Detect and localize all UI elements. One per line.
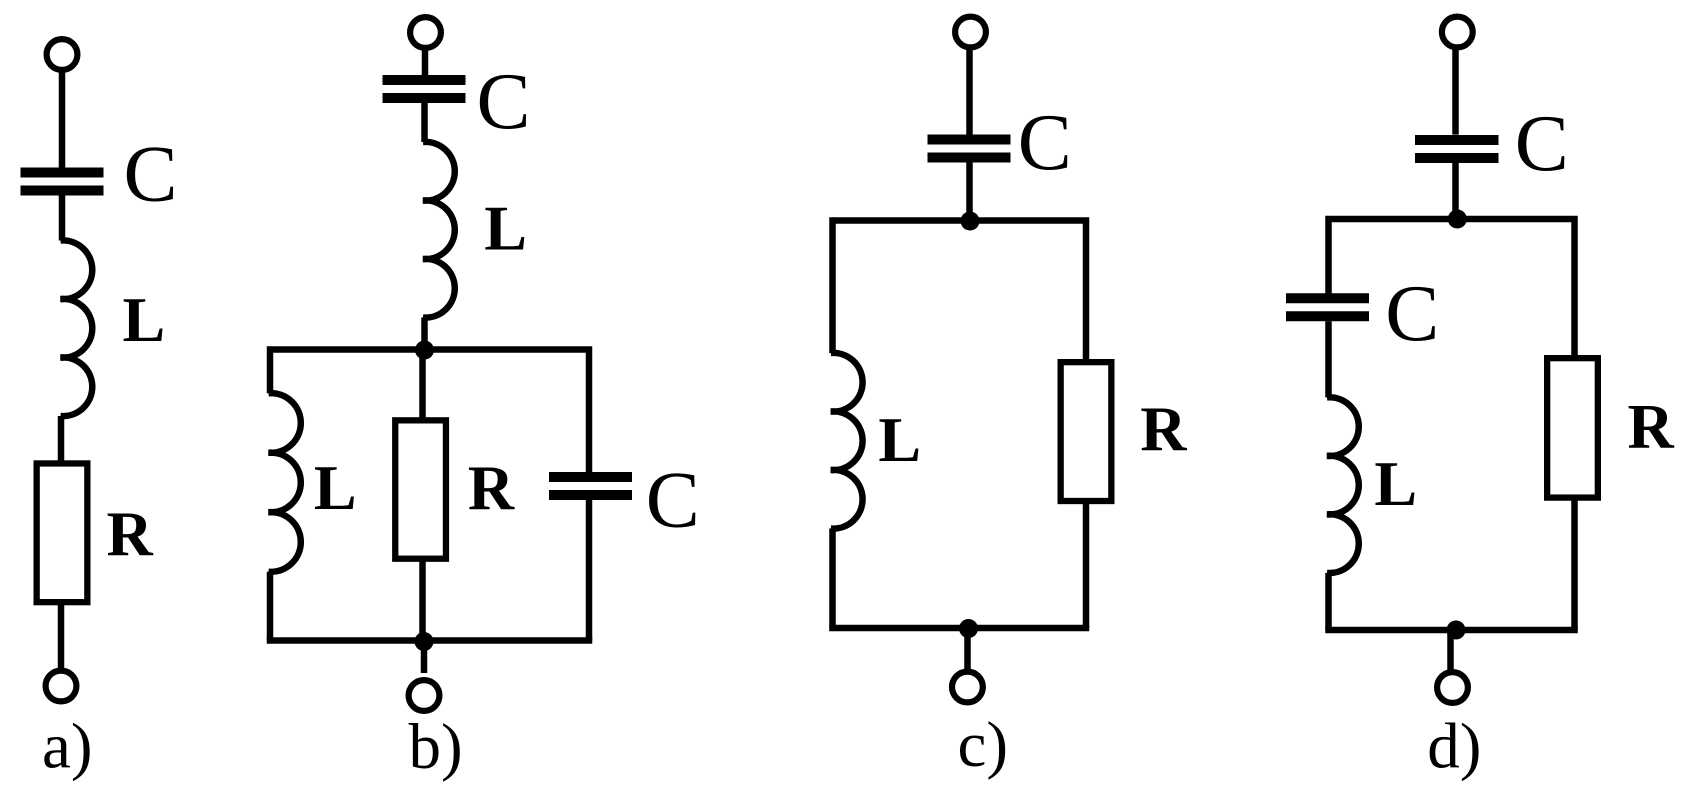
wire bottom rail c [829, 625, 1089, 632]
node top c [961, 212, 980, 231]
capacitor C (series) [21, 173, 104, 191]
inductor L d [1327, 397, 1359, 573]
wire [58, 416, 65, 464]
inductor L [61, 240, 93, 416]
wire bottom rail d [1325, 627, 1578, 634]
svg-text:c): c) [958, 709, 1009, 781]
wire [964, 628, 971, 672]
capacitor C c [928, 140, 1011, 158]
wire [966, 163, 973, 221]
svg-text:L: L [878, 404, 921, 475]
wire loop d [1329, 219, 1575, 358]
terminal bottom c [952, 672, 983, 703]
terminal bottom a [46, 671, 77, 702]
svg-text:C: C [1515, 98, 1569, 188]
capacitor C (parallel right) [549, 477, 632, 495]
inductor L (parallel left) [269, 393, 301, 572]
svg-text:C: C [646, 455, 700, 545]
svg-text:R: R [107, 498, 154, 569]
resistor R c [1061, 362, 1112, 501]
svg-text:b): b) [409, 711, 463, 783]
wire [421, 642, 428, 674]
wire [1452, 163, 1459, 219]
resistor R d [1547, 358, 1598, 497]
terminal bottom d [1437, 672, 1468, 703]
svg-text:C: C [477, 56, 531, 146]
inductor L (series) [423, 142, 455, 318]
wire left down b [267, 572, 274, 641]
svg-text:a): a) [42, 711, 93, 783]
wire [421, 103, 428, 142]
terminal top c [955, 17, 986, 48]
svg-text:R: R [468, 452, 515, 523]
wire loop c [833, 221, 1087, 363]
svg-text:d): d) [1427, 711, 1481, 783]
wire middle lower b [419, 559, 426, 641]
wire middle down b [419, 350, 426, 420]
wire right lower b [586, 500, 593, 641]
node bottom d [1447, 621, 1466, 640]
capacitor C top d [1415, 140, 1499, 158]
wire [1447, 630, 1454, 670]
svg-text:C: C [124, 128, 178, 218]
terminal top d [1442, 17, 1473, 48]
capacitor C (series top) [383, 80, 466, 98]
wire bottom rail b [267, 637, 593, 644]
wire left lower d [1325, 573, 1332, 630]
svg-text:C: C [1385, 268, 1439, 358]
inductor L c [831, 353, 863, 529]
capacitor C left d [1286, 298, 1369, 316]
wire [421, 318, 428, 351]
wire [59, 70, 66, 168]
terminal top b [410, 17, 441, 48]
wire [966, 48, 973, 135]
terminal top a [47, 39, 78, 70]
resistor R [37, 463, 88, 602]
node top d [1448, 210, 1467, 229]
svg-text:L: L [484, 193, 527, 264]
wire [59, 196, 66, 241]
wire right lower c [1083, 501, 1090, 628]
svg-text:L: L [123, 284, 166, 355]
wire [1325, 321, 1332, 397]
svg-text:L: L [1374, 448, 1417, 519]
node top b [415, 341, 434, 360]
node bottom c [959, 619, 978, 638]
node bottom b [415, 632, 434, 651]
wire [1452, 48, 1459, 135]
svg-text:C: C [1018, 97, 1072, 187]
wire top rail b [270, 350, 589, 473]
svg-text:L: L [314, 452, 357, 523]
wire right lower d [1571, 498, 1578, 630]
svg-text:R: R [1628, 391, 1675, 462]
terminal bottom b [409, 680, 440, 711]
wire left lower c [829, 529, 836, 629]
resistor R b [395, 420, 446, 558]
svg-text:R: R [1140, 393, 1187, 464]
wire [58, 602, 65, 671]
wire [422, 48, 429, 75]
